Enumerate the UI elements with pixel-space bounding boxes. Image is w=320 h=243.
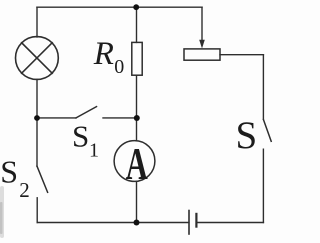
wire S2 upper lead: [36, 118, 38, 166]
label S1: [72, 119, 99, 162]
wire S2 lower lead: [36, 198, 38, 223]
svg-text:A: A: [126, 139, 148, 189]
svg-text:R: R: [93, 36, 114, 72]
wire rheostat right lead: [220, 54, 263, 56]
wire middle column top (node to R0): [136, 7, 138, 42]
battery plate short negative: [195, 214, 197, 227]
node bottom (ammeter / battery wire): [134, 220, 140, 226]
wire S1 left lead: [37, 117, 76, 119]
switch S blade: [263, 120, 271, 142]
svg-text:2: 2: [19, 178, 30, 202]
node left (lamp / S1 / S2): [34, 115, 40, 121]
wire right column upper (rheostat to S): [262, 55, 264, 119]
rheostat body: [184, 49, 220, 60]
label S2: [0, 153, 30, 202]
resistor R0: [132, 42, 142, 75]
wire bottom left (S2 to battery): [37, 222, 189, 224]
svg-text:0: 0: [114, 56, 124, 78]
switch S2 blade: [37, 166, 48, 192]
wire top right corner down to wiper arrow: [201, 7, 203, 40]
node top (R0 branch): [133, 4, 139, 10]
wire S1 right lead: [103, 117, 137, 119]
label R0: [93, 36, 124, 78]
wire bottom right (battery to S): [196, 222, 263, 224]
svg-text:S: S: [72, 119, 89, 154]
wire top horizontal: [37, 6, 202, 8]
switch S1 blade: [76, 107, 97, 118]
wire right column lower (S bottom lead): [262, 149, 264, 222]
wire lamp bottom to left node: [36, 79, 38, 118]
node middle (S1 / R0 / ammeter): [134, 115, 140, 121]
svg-text:S: S: [0, 153, 18, 189]
svg-text:S: S: [236, 114, 258, 157]
wire R0 to ammeter: [136, 75, 138, 141]
ammeter A: [114, 141, 155, 182]
wire ammeter to bottom node: [136, 181, 138, 222]
rheostat wiper arrowhead: [199, 40, 205, 49]
wire left column upper (top wire to lamp): [36, 7, 38, 37]
lamp: [16, 37, 59, 80]
scan smudge left edge: [0, 186, 4, 238]
svg-text:1: 1: [89, 139, 99, 161]
battery plate long positive: [188, 211, 190, 235]
